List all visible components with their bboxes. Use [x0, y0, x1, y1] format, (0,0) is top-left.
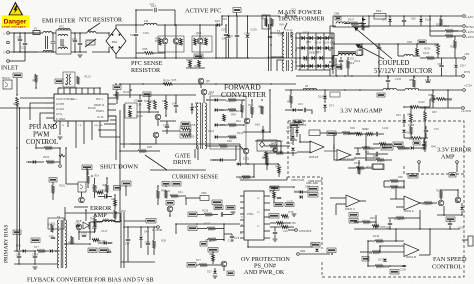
- wire: [378, 44, 380, 47]
- svg-text:R98: R98: [47, 222, 52, 226]
- resistor R54: [276, 222, 283, 225]
- junction: [344, 89, 346, 91]
- inductor L1 bottom: [43, 51, 52, 53]
- wire: [18, 251, 20, 256]
- junction: [419, 228, 421, 230]
- capacitor C242: [376, 132, 377, 136]
- wire: [366, 159, 376, 161]
- terminal CY3: [7, 60, 10, 63]
- junction: [437, 43, 439, 45]
- junction: [323, 47, 325, 49]
- svg-text:D25: D25: [222, 28, 227, 32]
- wire: [20, 97, 46, 99]
- wire: [447, 90, 449, 108]
- wire: [375, 215, 377, 229]
- wire: [129, 84, 131, 98]
- wire: [384, 180, 390, 182]
- resistor R25: [87, 175, 90, 183]
- rectifier diode r0 x311: [310, 36, 313, 40]
- net box L9: [377, 93, 385, 97]
- wire: [35, 144, 37, 148]
- wire: [404, 106, 410, 108]
- net box M2: [200, 242, 207, 247]
- wire: [79, 33, 81, 43]
- junction: [335, 133, 337, 135]
- wire: [225, 25, 227, 33]
- junction: [199, 83, 201, 85]
- svg-text:T4: T4: [57, 215, 61, 219]
- wire: [292, 140, 294, 146]
- wire: [92, 51, 109, 53]
- wire: [85, 210, 87, 221]
- wire: [164, 44, 166, 58]
- wire: [434, 57, 438, 59]
- resistor R21: [51, 224, 54, 232]
- transistor W7: [79, 197, 85, 203]
- wire: [283, 222, 290, 224]
- wire: [87, 170, 89, 175]
- junction: [253, 176, 255, 178]
- wire: [116, 99, 118, 104]
- +12V rail bus B: [369, 15, 462, 17]
- wire: [34, 258, 36, 264]
- diode D16: [215, 98, 218, 102]
- svg-text:MOC-8: MOC-8: [2, 77, 10, 80]
- wire: [225, 36, 227, 58]
- svg-text:R28: R28: [147, 145, 152, 149]
- wire: [206, 145, 219, 147]
- junction: [419, 202, 421, 204]
- svg-text:COUPLED: COUPLED: [378, 60, 409, 67]
- inductor L1 top: [43, 32, 52, 34]
- resistor R116r: [410, 126, 413, 134]
- wire: [299, 134, 301, 142]
- junction: [387, 76, 389, 78]
- wire: [35, 161, 44, 163]
- svg-text:D117: D117: [460, 64, 467, 68]
- junction: [440, 189, 442, 191]
- U1 right pin 21: [108, 103, 116, 105]
- svg-text:R96: R96: [227, 139, 232, 143]
- ground: [78, 55, 83, 57]
- wire: [212, 261, 214, 264]
- svg-text:12 STB: 12 STB: [56, 103, 64, 106]
- svg-text:R40: R40: [431, 144, 436, 148]
- junction: [164, 83, 166, 85]
- diode D34: [411, 146, 414, 150]
- wire: [94, 192, 96, 198]
- resistor R12b: [445, 35, 453, 38]
- wire: [16, 235, 18, 251]
- svg-text:D139: D139: [378, 258, 385, 262]
- wire: [423, 146, 425, 150]
- junction: [403, 15, 405, 17]
- diode D35: [300, 190, 303, 194]
- wire: [367, 241, 369, 266]
- junction: [307, 37, 309, 39]
- wire: [14, 250, 23, 252]
- rectifier diode r1 x303: [302, 46, 305, 50]
- capacitor C86: [285, 14, 286, 18]
- U6 right pin 12: [264, 216, 270, 218]
- resistor R286: [356, 167, 364, 170]
- wire: [378, 43, 380, 45]
- coupled inductor L6 w3: [338, 54, 356, 56]
- svg-text:R158: R158: [186, 58, 193, 62]
- wire: [288, 226, 294, 228]
- junction: [307, 65, 309, 67]
- resistor R56: [77, 76, 80, 84]
- svg-text:L12: L12: [103, 217, 108, 221]
- svg-text:C133: C133: [395, 77, 402, 81]
- svg-text:C153: C153: [163, 123, 170, 127]
- wire: [429, 229, 431, 255]
- svg-text:W261 B: W261 B: [309, 155, 318, 159]
- resistor R109: [181, 134, 190, 137]
- svg-text:C88: C88: [16, 252, 21, 256]
- svg-text:R136: R136: [100, 239, 107, 243]
- resistor R216: [396, 217, 404, 220]
- svg-text:R159: R159: [202, 208, 209, 212]
- capacitor C120: [221, 212, 222, 216]
- junction: [315, 47, 317, 49]
- junction: [273, 186, 275, 188]
- wire: [91, 127, 93, 140]
- svg-text:R120: R120: [84, 74, 91, 78]
- wire: [165, 109, 167, 116]
- junction: [35, 161, 37, 163]
- svg-text:C17: C17: [215, 207, 220, 211]
- terminal N: [7, 51, 10, 54]
- junction: [153, 226, 155, 228]
- terminal +12V1: [463, 30, 466, 33]
- svg-text:R125: R125: [205, 239, 212, 243]
- terminal +3.3VS: [462, 107, 465, 110]
- junction: [35, 147, 37, 149]
- resistor R14A: [437, 44, 440, 54]
- wire: [197, 228, 207, 230]
- diode D31: [293, 108, 296, 112]
- junction: [323, 65, 325, 67]
- wire: [410, 134, 412, 138]
- resistor R139: [228, 136, 236, 139]
- wire: [108, 47, 110, 52]
- capacitor C16b: [439, 65, 443, 66]
- AC neutral wire: [9, 51, 38, 53]
- junction: [331, 47, 333, 49]
- +5V wire: [438, 57, 462, 59]
- wire: [324, 99, 326, 104]
- wire: [396, 206, 404, 208]
- wire: [384, 186, 390, 188]
- wire: [359, 48, 361, 51]
- L1 core: [47, 36, 49, 49]
- inductor L8: [303, 88, 317, 90]
- svg-text:+12V1: +12V1: [466, 30, 474, 34]
- junction: [413, 76, 415, 78]
- transformer T3: [196, 103, 198, 107]
- wire: [403, 134, 405, 139]
- resistor R158: [269, 145, 277, 148]
- transistor Q11: [201, 89, 207, 95]
- wire: [175, 107, 177, 112]
- junction: [114, 194, 116, 196]
- junction: [387, 75, 389, 77]
- wire: [121, 261, 155, 263]
- junction: [91, 175, 93, 177]
- junction: [247, 57, 249, 59]
- junction: [432, 89, 434, 91]
- junction: [135, 9, 137, 11]
- box L6: [357, 50, 363, 55]
- wire: [283, 152, 297, 154]
- wire: [136, 52, 144, 54]
- resistor R23: [265, 18, 268, 26]
- 12V filter block: [333, 16, 369, 27]
- resistor R217: [372, 251, 380, 254]
- PFC fet frame: [158, 36, 184, 52]
- svg-text:R64: R64: [231, 113, 236, 117]
- capacitor C265: [402, 265, 406, 266]
- wire: [96, 32, 109, 34]
- junction: [403, 180, 405, 182]
- secondary wire row 2: [296, 47, 334, 49]
- junction: [85, 209, 87, 211]
- diode D14: [323, 96, 327, 99]
- wire: [264, 145, 269, 147]
- wire: [34, 251, 36, 256]
- junction: [215, 83, 217, 85]
- wire: [239, 144, 241, 162]
- zener ZD2: [139, 237, 143, 240]
- resistor R219: [375, 265, 383, 268]
- junction: [351, 75, 353, 77]
- svg-text:C151: C151: [143, 31, 150, 35]
- rectifier diode r2 x321: [320, 56, 323, 60]
- wire: [453, 30, 462, 32]
- wire: [453, 35, 462, 37]
- net box M8: [122, 181, 131, 186]
- wire: [78, 231, 95, 233]
- junction: [164, 57, 166, 59]
- wire: [223, 214, 232, 216]
- wire: [358, 23, 366, 25]
- wire: [52, 193, 54, 200]
- wire: [273, 187, 275, 191]
- wire: [135, 36, 137, 58]
- wire: [155, 138, 157, 144]
- svg-text:R102: R102: [204, 222, 211, 226]
- svg-text:J984: J984: [300, 250, 306, 253]
- frame R165: [125, 103, 137, 118]
- wire: [215, 25, 217, 58]
- ground: [58, 137, 63, 139]
- net box +5B: [88, 248, 97, 253]
- wire: [90, 221, 102, 223]
- wire: [397, 44, 399, 56]
- junction: [74, 32, 76, 34]
- wire: [65, 212, 120, 214]
- wire: [389, 16, 391, 18]
- junction: [344, 75, 346, 77]
- svg-text:D129: D129: [251, 28, 258, 32]
- terminal L: [7, 32, 10, 35]
- svg-text:RAMP 14: RAMP 14: [94, 104, 105, 107]
- wire: [379, 246, 381, 252]
- wire: [380, 245, 404, 247]
- C87 box: [330, 92, 340, 97]
- interconnect wire: [120, 143, 240, 145]
- svg-text:C86: C86: [411, 16, 416, 20]
- bus corner: [266, 16, 268, 27]
- svg-text:PFC 1: PFC 1: [96, 98, 103, 101]
- capacitor C082: [356, 153, 360, 154]
- junction: [139, 94, 141, 96]
- svg-text:R154: R154: [424, 47, 431, 51]
- junction: [299, 65, 301, 67]
- wire: [296, 133, 298, 138]
- diode D10N: [246, 35, 250, 38]
- junction: [367, 240, 369, 242]
- svg-text:+12V1: +12V1: [466, 35, 474, 39]
- wire: [98, 129, 116, 131]
- resistor R4: [144, 52, 153, 55]
- NTC strike: [85, 39, 96, 47]
- terminal +3.3V: [463, 89, 466, 92]
- svg-text:R66: R66: [201, 42, 206, 46]
- capacitor CY2: [23, 43, 27, 44]
- wire: [200, 84, 202, 88]
- wire: [106, 242, 112, 244]
- junction: [307, 57, 309, 59]
- wire: [366, 153, 376, 155]
- svg-text:R17: R17: [363, 127, 368, 131]
- wire: [292, 152, 294, 157]
- wire: [16, 106, 18, 250]
- junction: [164, 24, 166, 26]
- wire: [83, 127, 85, 144]
- wire: [462, 239, 468, 241]
- diode D38: [261, 130, 265, 133]
- capacitor C58: [422, 144, 426, 145]
- junction: [295, 15, 297, 17]
- capacitor CY4: [73, 40, 77, 41]
- capacitor CY5: [78, 43, 82, 44]
- wire: [430, 98, 436, 100]
- junction: [125, 185, 127, 187]
- wire: [271, 56, 284, 58]
- junction: [277, 163, 279, 165]
- wire: [262, 126, 264, 130]
- snubber block: [262, 15, 270, 29]
- wire: [398, 55, 404, 57]
- zener ZD10: [291, 148, 295, 151]
- svg-text:R150: R150: [290, 221, 297, 225]
- wire: [106, 192, 108, 198]
- junction: [247, 15, 249, 17]
- resistor R215: [424, 202, 432, 205]
- svg-text:D17: D17: [208, 92, 213, 96]
- wire: [160, 120, 176, 122]
- wire: [324, 108, 326, 112]
- wire: [98, 196, 105, 198]
- svg-text:L11: L11: [144, 19, 149, 23]
- terminal J080: [418, 161, 421, 164]
- U1 top pin 1: [57, 88, 59, 94]
- wire: [139, 102, 141, 108]
- wire: [210, 159, 220, 161]
- U6 right pin 11: [264, 209, 270, 211]
- junction: [52, 32, 54, 34]
- wire: [403, 181, 405, 187]
- svg-text:R150: R150: [275, 165, 282, 169]
- wire: [94, 229, 96, 233]
- wire: [104, 123, 116, 125]
- resistor R165: [129, 110, 132, 117]
- junction: [389, 15, 391, 17]
- U6 right pin 9: [264, 195, 270, 197]
- wire: [16, 78, 18, 95]
- wire: [365, 134, 367, 160]
- junction: [266, 15, 268, 17]
- wire: [370, 147, 380, 149]
- terminal TP: [59, 165, 62, 168]
- wire: [19, 33, 21, 39]
- svg-text:N: N: [4, 51, 6, 55]
- U1 top pin 7: [93, 88, 95, 94]
- wire: [437, 54, 439, 58]
- U6 left pin 8: [240, 237, 244, 239]
- resistor R65: [189, 60, 192, 67]
- wire: [94, 222, 96, 227]
- wire: [9, 60, 25, 62]
- resistor R45: [96, 191, 103, 194]
- U6 left pin 6: [240, 225, 244, 227]
- junction: [35, 87, 37, 89]
- wire: [157, 186, 159, 190]
- RTN2 wire: [380, 25, 462, 27]
- diode D19: [215, 108, 218, 112]
- svg-text:+5V: +5V: [464, 52, 469, 56]
- junction: [269, 131, 271, 133]
- zener Z260: [383, 259, 387, 262]
- wire: [108, 116, 116, 160]
- net box +5VB s: [82, 165, 92, 170]
- wire: [52, 182, 54, 185]
- junction: [19, 32, 21, 34]
- T1 pointer: [284, 23, 287, 30]
- svg-text:D116: D116: [208, 129, 215, 133]
- wire: [274, 227, 276, 232]
- primary feed wire b: [270, 24, 272, 71]
- net box M008: [408, 174, 418, 179]
- resistor R5Q: [416, 48, 419, 55]
- wire: [24, 52, 26, 61]
- svg-text:4T9H: 4T9H: [247, 212, 253, 216]
- svg-text:D142: D142: [195, 101, 202, 105]
- junction: [247, 163, 249, 165]
- resistor R122: [273, 191, 276, 198]
- wire: [185, 198, 187, 205]
- secondary wire row 4: [296, 65, 334, 67]
- fan mid bus: [354, 228, 460, 230]
- svg-text:AT2: AT2: [59, 25, 64, 29]
- box R108: [180, 127, 191, 132]
- wire: [59, 127, 61, 135]
- capacitor C73x: [230, 236, 234, 237]
- U1 top pin 3: [69, 88, 71, 94]
- resistor R126: [228, 109, 236, 112]
